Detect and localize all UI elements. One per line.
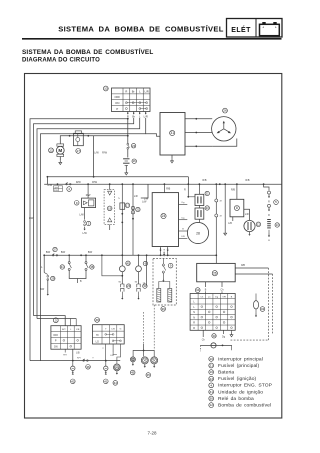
svg-text:19: 19 xyxy=(108,206,112,210)
svg-text:DIAGRAMA DO CIRCUITO: DIAGRAMA DO CIRCUITO xyxy=(22,57,100,63)
svg-text:30: 30 xyxy=(212,334,216,338)
svg-text:13: 13 xyxy=(276,223,280,227)
svg-text:Interruptor principal: Interruptor principal xyxy=(218,356,263,362)
svg-text:HI: HI xyxy=(96,334,99,337)
svg-text:23: 23 xyxy=(206,206,210,210)
svg-text:8: 8 xyxy=(236,206,238,210)
svg-text:38: 38 xyxy=(90,265,94,269)
svg-text:N: N xyxy=(193,311,195,314)
svg-text:Relé da bomba: Relé da bomba xyxy=(218,396,254,402)
svg-text:3: 3 xyxy=(55,318,57,322)
svg-text:22: 22 xyxy=(136,208,140,212)
svg-text:16: 16 xyxy=(133,159,137,163)
svg-text:R/Y: R/Y xyxy=(77,357,81,359)
svg-text:R: R xyxy=(125,89,127,93)
svg-text:L/B: L/B xyxy=(181,236,185,238)
svg-text:L/B: L/B xyxy=(228,222,232,225)
svg-text:R: R xyxy=(184,189,186,192)
svg-text:L/R: L/R xyxy=(245,213,249,216)
svg-text:38: 38 xyxy=(95,318,99,322)
svg-text:L/W: L/W xyxy=(29,217,34,220)
svg-text:RUN: RUN xyxy=(54,190,59,192)
svg-text:L/W: L/W xyxy=(142,200,147,203)
svg-text:L/W: L/W xyxy=(144,198,149,201)
svg-text:OFF: OFF xyxy=(114,95,120,99)
svg-text:LO: LO xyxy=(96,340,99,343)
svg-text:Bateria: Bateria xyxy=(218,370,234,376)
svg-text:23: 23 xyxy=(209,377,213,381)
svg-text:12: 12 xyxy=(257,222,261,226)
svg-text:10: 10 xyxy=(209,357,213,361)
svg-text:R/Y: R/Y xyxy=(62,329,66,331)
svg-text:SISTEMA DA BOMBA DE COMBUSTÍVE: SISTEMA DA BOMBA DE COMBUSTÍVEL xyxy=(22,47,153,56)
svg-text:OFF: OFF xyxy=(53,334,58,337)
svg-text:17: 17 xyxy=(76,149,80,153)
svg-text:23: 23 xyxy=(127,284,131,288)
svg-text:36: 36 xyxy=(86,365,90,369)
svg-text:R: R xyxy=(193,322,195,325)
svg-text:L/W: L/W xyxy=(82,232,87,235)
svg-text:P: P xyxy=(116,107,118,111)
svg-text:Fusível (ignição): Fusível (ignição) xyxy=(218,376,257,382)
svg-text:Unidade de ignição: Unidade de ignição xyxy=(218,389,263,395)
svg-text:7-28: 7-28 xyxy=(147,430,157,435)
svg-text:39: 39 xyxy=(162,307,166,311)
svg-text:M: M xyxy=(58,148,62,153)
svg-text:+: + xyxy=(262,26,264,30)
svg-text:Fusível (principal): Fusível (principal) xyxy=(218,363,259,369)
svg-text:R/W: R/W xyxy=(102,152,108,155)
svg-text:31: 31 xyxy=(209,390,213,394)
svg-text:28: 28 xyxy=(196,231,200,235)
svg-text:30: 30 xyxy=(209,397,213,401)
svg-text:42: 42 xyxy=(71,379,75,383)
svg-text:L/B: L/B xyxy=(76,353,80,355)
svg-text:4: 4 xyxy=(210,383,212,387)
svg-text:R: R xyxy=(193,327,195,330)
svg-text:L/B: L/B xyxy=(76,329,80,331)
svg-text:+: + xyxy=(275,26,277,30)
svg-text:L/R: L/R xyxy=(145,89,149,93)
svg-text:17: 17 xyxy=(126,203,130,207)
svg-text:R/W: R/W xyxy=(76,181,82,184)
svg-text:31: 31 xyxy=(170,131,174,135)
svg-text:21: 21 xyxy=(206,192,210,196)
svg-text:R/W: R/W xyxy=(92,181,98,184)
svg-text:R/B: R/B xyxy=(203,179,207,182)
svg-text:12: 12 xyxy=(49,148,53,152)
svg-text:24: 24 xyxy=(162,214,166,218)
svg-text:44: 44 xyxy=(114,381,118,385)
svg-text:N: N xyxy=(193,316,195,319)
svg-text:G: G xyxy=(120,329,122,331)
svg-text:L/W: L/W xyxy=(79,214,84,217)
svg-text:16: 16 xyxy=(209,370,213,374)
svg-text:41: 41 xyxy=(104,379,108,383)
svg-text:10: 10 xyxy=(104,87,108,91)
svg-text:29: 29 xyxy=(51,277,55,281)
svg-text:R/W: R/W xyxy=(47,184,52,187)
svg-text:12: 12 xyxy=(209,403,213,407)
svg-text:ON: ON xyxy=(54,346,58,349)
svg-text:L/B: L/B xyxy=(111,329,115,331)
svg-text:L/B: L/B xyxy=(110,355,114,357)
svg-text:ON: ON xyxy=(115,101,119,105)
svg-text:SISTEMA DA BOMBA DE COMBUSTÍVE: SISTEMA DA BOMBA DE COMBUSTÍVEL xyxy=(58,24,224,33)
svg-text:23: 23 xyxy=(132,144,136,148)
svg-text:43: 43 xyxy=(261,307,265,311)
svg-text:21: 21 xyxy=(209,364,213,368)
svg-text:26: 26 xyxy=(223,109,227,113)
svg-text:26: 26 xyxy=(213,271,217,275)
svg-text:R/B: R/B xyxy=(231,189,235,192)
svg-text:Y/R: Y/R xyxy=(222,297,226,299)
svg-text:R/B: R/B xyxy=(166,188,170,191)
svg-text:R/Y: R/Y xyxy=(63,355,67,357)
svg-text:34: 34 xyxy=(196,288,200,292)
svg-text:Interruptor ENG. STOP: Interruptor ENG. STOP xyxy=(218,383,272,389)
svg-text:R/B: R/B xyxy=(246,179,250,182)
svg-text:Br: Br xyxy=(132,89,135,93)
svg-text:L/W: L/W xyxy=(94,152,99,155)
svg-text:41: 41 xyxy=(61,265,65,269)
svg-text:L/R: L/R xyxy=(134,195,138,198)
svg-text:R/B: R/B xyxy=(241,265,245,267)
svg-text:40: 40 xyxy=(126,261,130,265)
svg-text:35: 35 xyxy=(147,373,151,377)
svg-text:Bomba de combustível: Bomba de combustível xyxy=(218,403,271,409)
svg-text:ELÉT: ELÉT xyxy=(231,25,251,34)
svg-text:45: 45 xyxy=(131,371,135,375)
svg-text:27: 27 xyxy=(53,248,57,252)
svg-text:R/W: R/W xyxy=(86,194,91,197)
